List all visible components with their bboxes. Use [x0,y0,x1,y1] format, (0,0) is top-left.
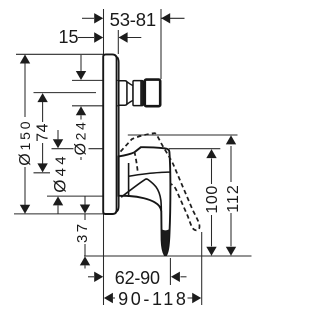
ring right dark band [140,81,143,106]
plate front face outer line [117,57,119,212]
wire: spindle bottom extension line L4 [72,105,118,107]
svg-text:Ø24: Ø24 [73,120,90,156]
wire: wall extension line below plate [103,214,105,305]
sleeve (Ø24 collar) [119,81,127,105]
wire: 74 bottom reference line L6 [34,172,54,174]
escutcheon plate (side profile) [103,54,116,214]
wire: wall extension line above plate [103,9,105,54]
svg-text:15: 15 [58,27,78,47]
wire: dashed tip extension line [201,232,203,305]
wire: spindle top extension line L2 [72,79,118,81]
svg-text:74: 74 [34,123,51,142]
wire: hub top extension line L5 right [169,148,221,150]
cone between sleeve and ring [127,82,133,104]
wire: plate front extension stub for 15 [117,30,119,54]
svg-text:37: 37 [74,221,91,243]
dimension Ø44 vertical [57,130,59,139]
wire: spindle axis line L3 [34,92,97,94]
wire: 53-81 right extension line [160,9,162,79]
dimension Ø24 vertical [80,55,82,71]
dimension 53-81 [82,17,94,19]
svg-text:62-90: 62-90 [115,268,160,288]
dashed lever inner edge crossing hub [134,152,138,174]
svg-text:Ø150: Ø150 [17,119,34,166]
dimension 74 vertical [42,94,44,122]
cartridge spindle end cylinder [145,80,160,107]
wire: dashed lever top reference line L9 [128,134,238,136]
svg-text:100: 100 [204,185,221,214]
svg-text:53-81: 53-81 [110,9,156,30]
handle (solid closed position) [119,147,171,255]
handle swoosh curve [121,179,161,212]
wire: hub bottom extension line L7 [47,195,103,197]
svg-text:90-118: 90-118 [118,289,188,309]
wire: lever bottom reference line L10 [84,255,252,257]
dimension Ø150 vertical [24,55,26,117]
svg-text:Ø44: Ø44 [51,153,70,193]
dimension 100 vertical [211,159,213,247]
handle hub front edge [128,163,130,197]
wire: top tangent extension line L1 [16,53,104,55]
ring cylinder [133,81,143,106]
dimension 90-118 [104,293,113,303]
svg-text:112: 112 [225,184,242,213]
wire: plate bottom tangent line L8 [14,213,104,215]
handle paddle top line [129,172,170,176]
dimension 62-90 [88,276,94,278]
dimension 15 [78,37,94,39]
dimension 112 vertical [230,146,232,246]
dimension 37 vertical [84,196,86,204]
dashed open lever outline [121,133,200,230]
wire: hub top extension line L5 left [52,148,104,150]
lever blade dark tip [162,229,170,255]
wire: lever tip extension line [169,258,171,285]
